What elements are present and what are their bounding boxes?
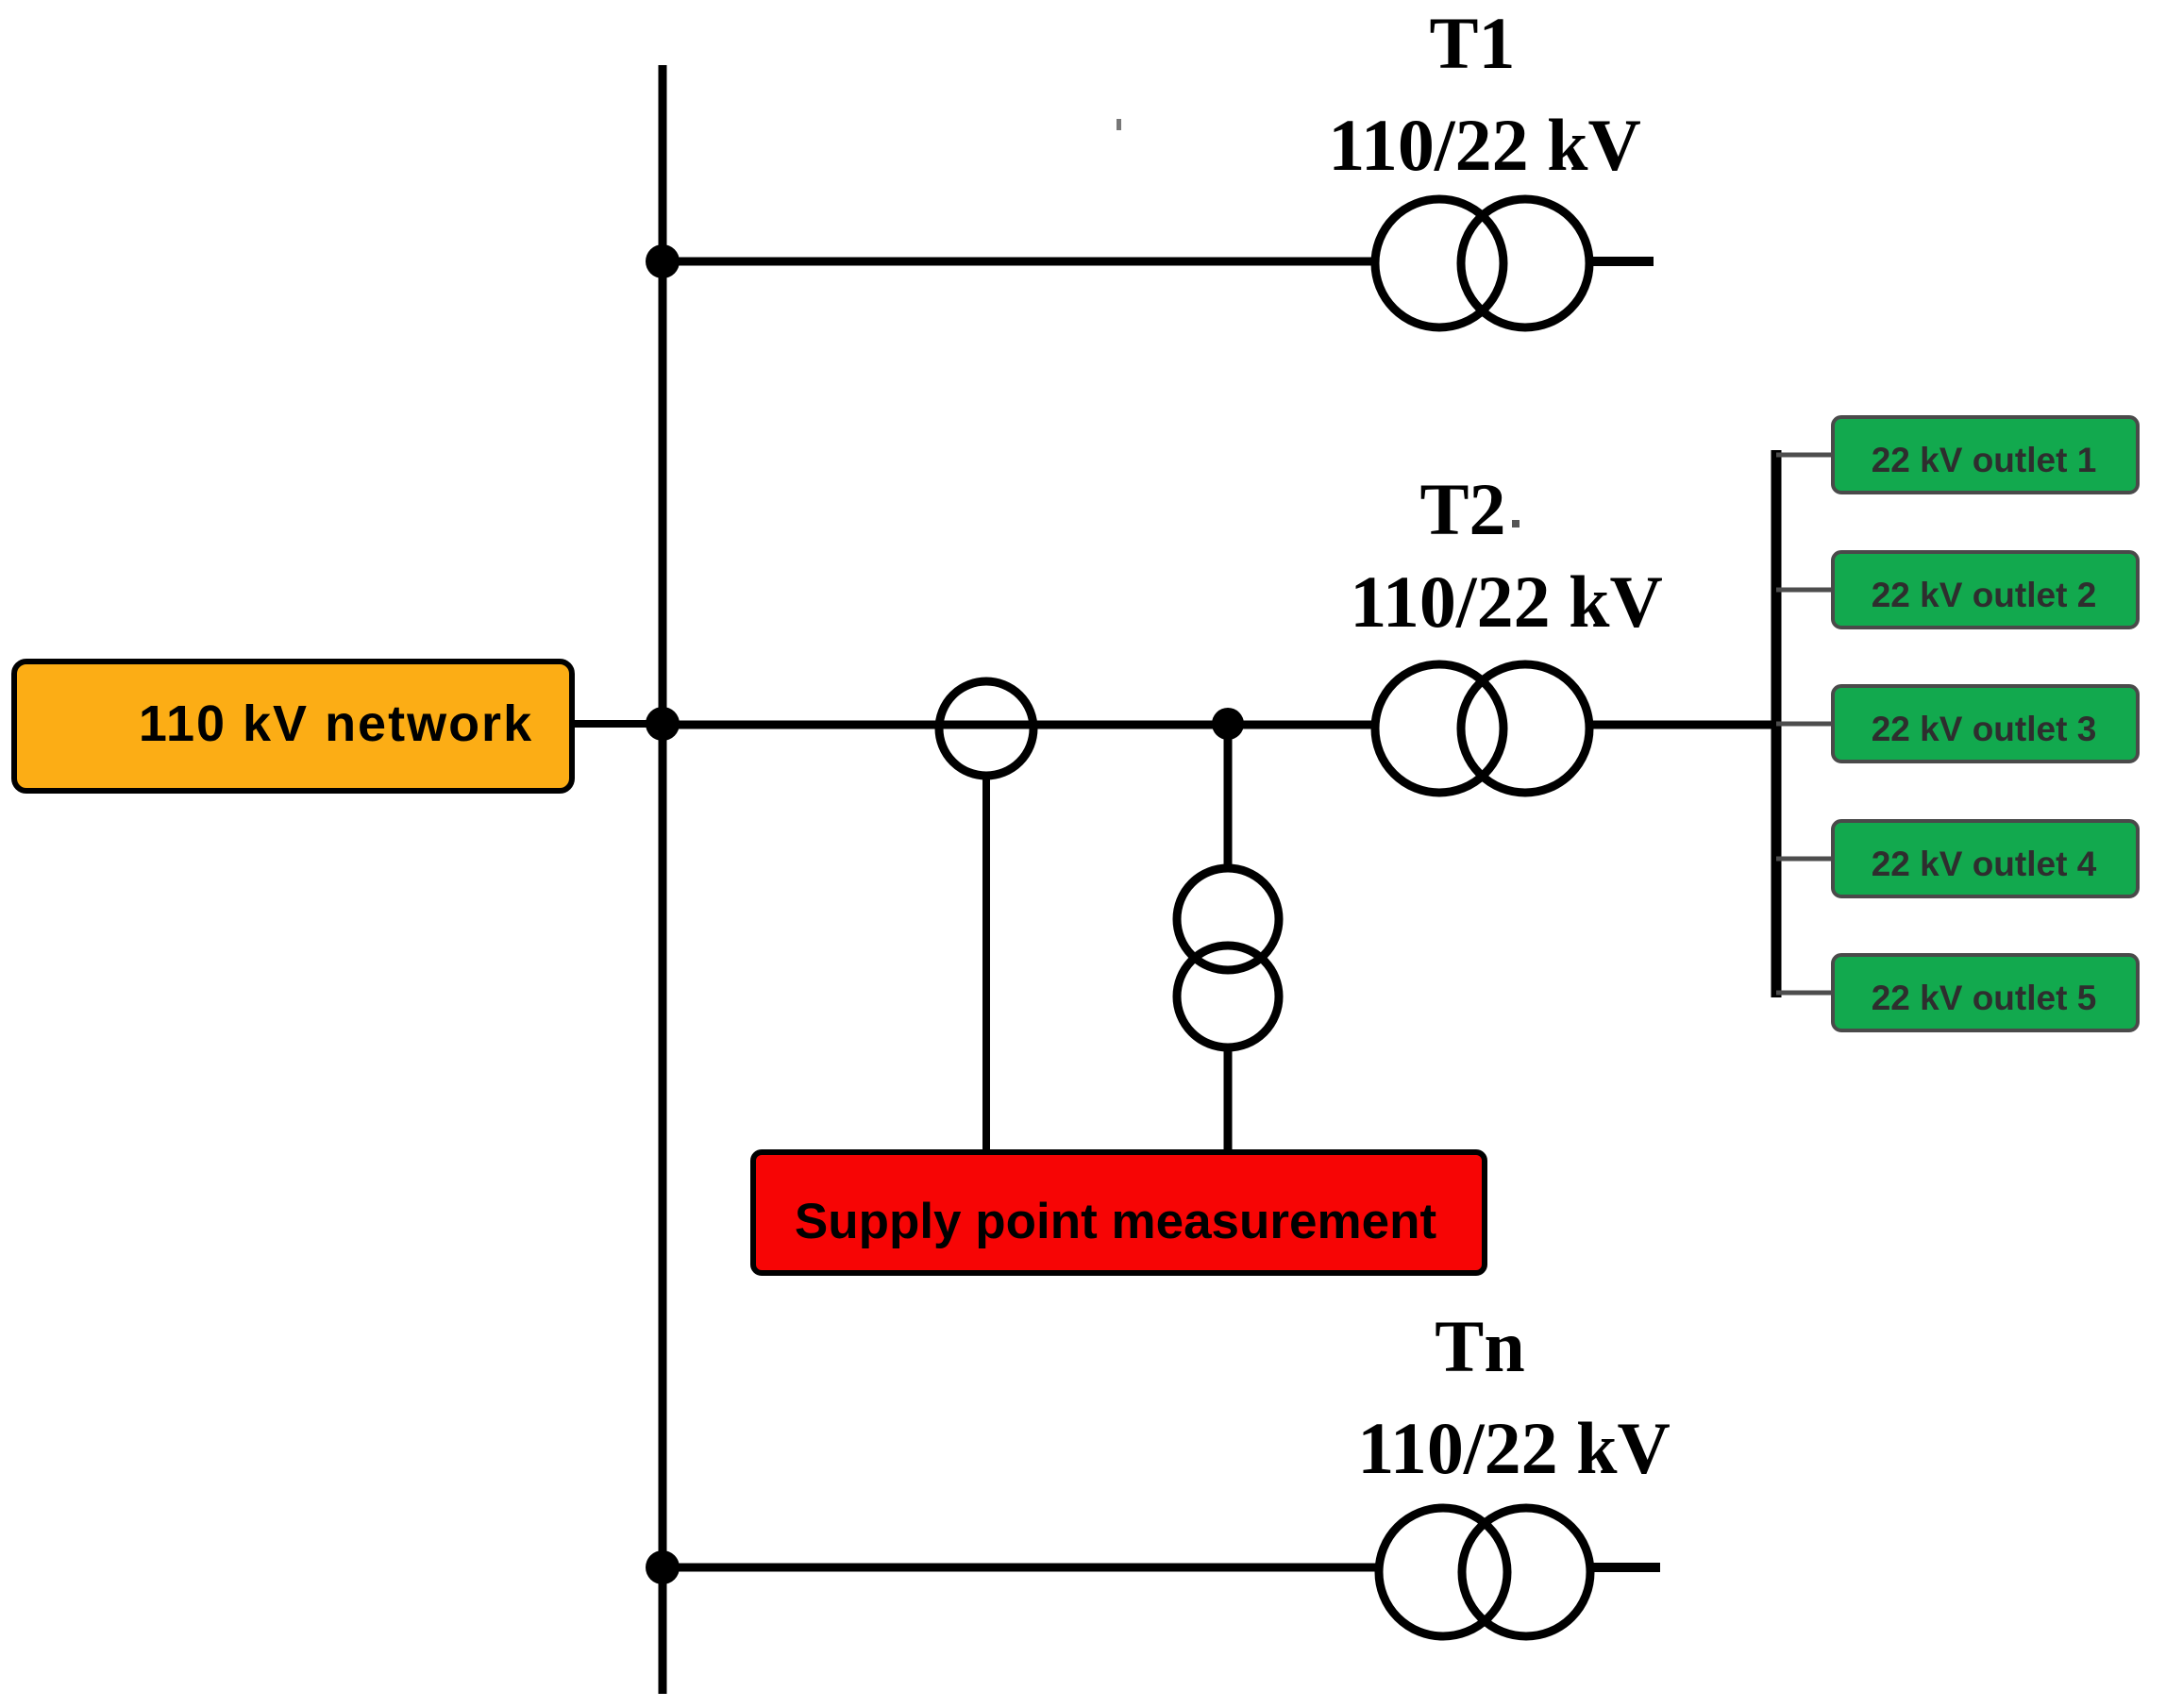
label T2 period [1512,520,1520,527]
wire stub outlet 2 [1776,588,1835,593]
node 22 kV outlet 1 [1833,417,2138,493]
svg-text:T2: T2 [1419,468,1505,550]
wire stub outlet 5 [1776,991,1835,996]
stray mark [1117,119,1121,130]
wire VT to measurement box [1224,1047,1233,1154]
node junction on T2 line [1212,708,1244,740]
svg-text:22 kV outlet 1: 22 kV outlet 1 [1872,441,2097,479]
svg-text:110/22 kV: 110/22 kV [1328,104,1641,186]
node busbar-Tn [646,1550,680,1584]
node 22 kV outlet 4 [1833,821,2138,896]
wire stub outlet 3 [1776,722,1835,727]
wire network box to busbar [572,720,663,728]
wire junction to VT [1224,724,1233,870]
busbar 110 kV [659,65,667,1694]
wire Tn output stub [1592,1563,1660,1572]
wire T2 to outlets [1591,721,1778,729]
wire T1 branch [663,258,1376,266]
svg-text:22 kV outlet 5: 22 kV outlet 5 [1872,979,2097,1017]
wire outlet bracket [1771,450,1782,997]
svg-text:Tn: Tn [1435,1305,1524,1387]
svg-text:22 kV outlet 2: 22 kV outlet 2 [1872,576,2097,614]
transformer T2 [1375,664,1589,793]
wire Tn branch [663,1564,1376,1572]
transformer Tn [1379,1508,1590,1636]
node 110 kV network box [14,661,572,791]
node busbar-T2 [646,707,680,741]
voltage transformer VT [1177,868,1279,1047]
svg-text:Supply point measurement: Supply point measurement [795,1194,1436,1249]
svg-text:22 kV outlet 3: 22 kV outlet 3 [1872,710,2097,748]
svg-text:T1: T1 [1429,2,1515,84]
svg-text:110 kV network: 110 kV network [139,695,533,752]
node 22 kV outlet 2 [1833,552,2138,628]
svg-text:110/22 kV: 110/22 kV [1357,1407,1671,1489]
svg-text:22 kV outlet 4: 22 kV outlet 4 [1872,845,2097,883]
wire stub outlet 4 [1776,857,1835,862]
current transformer CT [939,681,1033,776]
node supply point measurement box [753,1152,1485,1273]
svg-text:110/22 kV: 110/22 kV [1350,561,1663,643]
node busbar-T1 [646,244,680,278]
node 22 kV outlet 3 [1833,686,2138,762]
node 22 kV outlet 5 [1833,955,2138,1030]
wire T2 branch [663,721,1376,729]
transformer T1 [1375,199,1589,327]
wire CT to measurement box [982,774,990,1154]
wire T1 output stub [1591,257,1654,266]
wire stub outlet 1 [1776,453,1835,458]
